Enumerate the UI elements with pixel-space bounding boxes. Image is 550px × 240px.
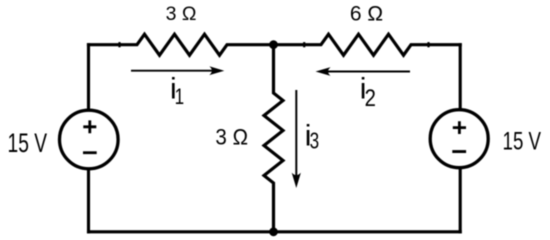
- svg-text:3 Ω: 3 Ω: [215, 125, 248, 150]
- arrow i3: [292, 90, 301, 188]
- svg-text:15 V: 15 V: [503, 128, 542, 156]
- node B dot (bottom): [269, 227, 278, 236]
- wire node A to resistor R2 and top-right corner: [274, 34, 461, 55]
- wire right vertical lower: [459, 169, 462, 232]
- arrow i1: [131, 66, 224, 75]
- wire top-left with resistor R1 and segment to node A: [89, 34, 274, 55]
- wire left vertical lower: [87, 170, 90, 232]
- V2 minus sign: [452, 150, 466, 153]
- wire bottom: [89, 230, 461, 233]
- V2 plus sign: [453, 121, 466, 134]
- wire left vertical upper: [87, 45, 90, 110]
- wire joint tick middle: [303, 42, 305, 47]
- wire right vertical upper: [459, 45, 462, 109]
- svg-text:15 V: 15 V: [8, 128, 48, 158]
- wire joint tick left: [118, 42, 120, 47]
- svg-text:1: 1: [175, 84, 185, 109]
- arrow i2: [316, 67, 411, 76]
- svg-text:6 Ω: 6 Ω: [350, 3, 383, 26]
- wire middle upper + resistor R3 + wire middle lower: [264, 45, 283, 232]
- voltage source V1 circle: [60, 110, 119, 169]
- V1 plus sign: [83, 120, 96, 133]
- svg-text:3 Ω: 3 Ω: [166, 3, 197, 25]
- V1 minus sign: [83, 151, 97, 154]
- svg-text:2: 2: [365, 85, 376, 112]
- voltage source V2 circle: [430, 110, 488, 168]
- node A dot (top): [269, 40, 278, 49]
- svg-text:3: 3: [310, 128, 320, 154]
- wire joint tick right: [427, 42, 429, 47]
